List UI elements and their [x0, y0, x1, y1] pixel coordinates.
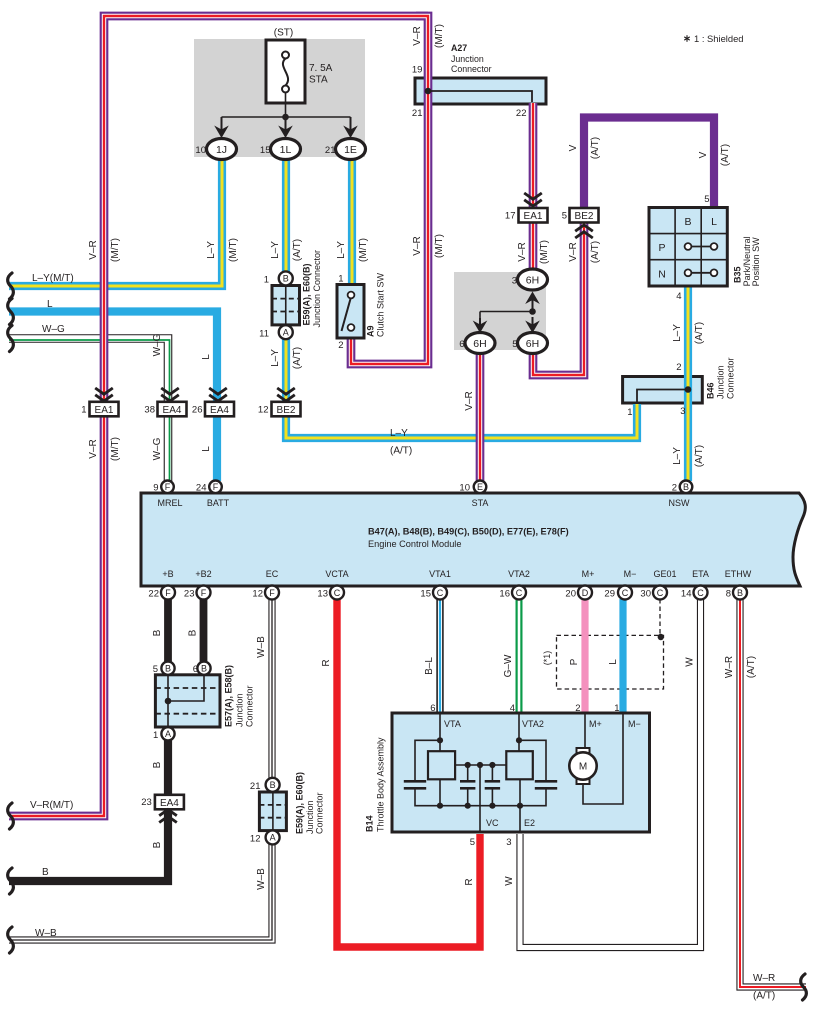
- wire V-R(M/T) A27 pin 19/21 to clutch start SW A9 pin 2: [351, 16, 428, 364]
- svg-text:B: B: [165, 664, 171, 674]
- svg-text:C: C: [334, 588, 341, 598]
- break W-R right edge: [801, 974, 807, 1000]
- junction dot B14: [489, 762, 495, 768]
- throttle body assembly B14: [392, 713, 650, 832]
- svg-text:12: 12: [250, 834, 261, 845]
- svg-text:W–B: W–B: [256, 636, 267, 658]
- wire P ECM M+ to throttle body M+: [581, 599, 588, 714]
- svg-text:M−: M−: [628, 719, 641, 729]
- svg-text:C: C: [657, 588, 664, 598]
- svg-text:2: 2: [676, 362, 681, 373]
- pin 12(A) of E59/E60 lower: [266, 830, 280, 844]
- svg-text:V–R: V–R: [412, 26, 423, 45]
- svg-text:2: 2: [672, 483, 677, 494]
- svg-text:22: 22: [516, 108, 527, 119]
- svg-text:R: R: [464, 878, 475, 885]
- connector 38 EA4: [158, 402, 187, 417]
- fuse block background (ST): [194, 39, 365, 157]
- svg-text:(A/T): (A/T): [694, 445, 705, 467]
- svg-text:EA4: EA4: [160, 798, 179, 809]
- svg-text:Connector: Connector: [726, 357, 736, 399]
- arrow into 1L: [278, 117, 293, 138]
- wire V-R from 6H pin 6 to ECM STA: [476, 347, 485, 481]
- ECM pin 2(B) NSW: [680, 481, 693, 494]
- svg-text:14: 14: [681, 589, 692, 600]
- junction connector A27: [415, 78, 546, 104]
- ECM pin 24(F) BATT: [209, 481, 222, 494]
- svg-text:L–Y: L–Y: [390, 428, 408, 439]
- wire W-G green stripe: [9, 340, 170, 481]
- break W-G left edge: [8, 326, 14, 352]
- svg-text:(M/T): (M/T): [228, 238, 239, 262]
- svg-text:V: V: [568, 144, 579, 151]
- pin 6(B) of E57/E58: [197, 662, 210, 675]
- svg-text:C: C: [622, 588, 629, 598]
- svg-text:3: 3: [680, 406, 685, 417]
- shield junction dot: [658, 634, 664, 640]
- wire B ECM +B2 to E57 pin 6: [200, 599, 208, 662]
- svg-text:BE2: BE2: [575, 211, 594, 222]
- svg-text:(M/T): (M/T): [110, 437, 121, 461]
- ECM pin 20(D): [578, 586, 592, 600]
- svg-text:F: F: [165, 588, 171, 598]
- svg-text:26: 26: [192, 405, 203, 416]
- ECM pin 15(C): [433, 586, 447, 600]
- svg-text:12: 12: [258, 405, 269, 416]
- svg-text:W: W: [684, 657, 695, 667]
- svg-text:Junction: Junction: [716, 365, 726, 399]
- svg-text:BE2: BE2: [277, 405, 296, 416]
- svg-text:A27: A27: [451, 43, 467, 53]
- svg-text:Connector: Connector: [245, 685, 255, 727]
- svg-text:E: E: [477, 482, 483, 492]
- svg-text:F: F: [165, 482, 171, 492]
- break B left edge: [8, 868, 14, 894]
- svg-text:N: N: [658, 268, 666, 280]
- svg-text:10: 10: [459, 483, 470, 494]
- svg-text:12: 12: [252, 589, 263, 600]
- 6H connector block background: [454, 272, 546, 350]
- svg-text:6H: 6H: [526, 275, 539, 287]
- connector 3 6H: [518, 269, 548, 290]
- svg-text:(A/T): (A/T): [694, 322, 705, 344]
- svg-text:B: B: [737, 588, 743, 598]
- wire W-B ECM EC to junction E59/E60 pin 21: [268, 599, 275, 779]
- svg-text:C: C: [697, 588, 704, 598]
- svg-text:L: L: [608, 659, 619, 665]
- svg-text:(M/T): (M/T): [434, 234, 445, 258]
- ECM pin 12(F): [265, 586, 279, 600]
- connector 12 BE2: [272, 402, 301, 417]
- svg-text:VCTA: VCTA: [325, 569, 348, 579]
- svg-text:(A/T): (A/T): [590, 241, 601, 263]
- connector arrows EA4: [209, 388, 227, 401]
- svg-text:VTA2: VTA2: [508, 569, 530, 579]
- svg-text:(A/T): (A/T): [720, 144, 731, 166]
- svg-text:20: 20: [565, 589, 576, 600]
- svg-text:21: 21: [325, 145, 336, 156]
- svg-text:1L: 1L: [280, 144, 292, 156]
- svg-text:(A/T): (A/T): [390, 446, 412, 457]
- svg-text:1: 1: [264, 275, 269, 286]
- svg-text:5: 5: [704, 194, 709, 205]
- svg-text:38: 38: [144, 405, 155, 416]
- ECM pin 8(B): [733, 586, 747, 600]
- svg-text:L–Y: L–Y: [270, 349, 281, 367]
- junction dot inside E57/E58: [165, 698, 172, 705]
- ECM pin 22(F): [161, 586, 175, 600]
- wire B ECM +B to E57 pin 5: [164, 599, 172, 662]
- svg-text:B: B: [42, 867, 49, 878]
- svg-text:EA4: EA4: [163, 405, 182, 416]
- pin 1(A) of E57/E58: [161, 727, 174, 740]
- svg-text:A: A: [270, 833, 276, 843]
- svg-text:29: 29: [604, 589, 615, 600]
- wire GE01 shield drain (dashed): [659, 599, 661, 635]
- svg-text:VC: VC: [486, 818, 499, 828]
- wire fuse distribution rail: [222, 116, 351, 118]
- svg-text:L–Y(M/T): L–Y(M/T): [32, 273, 74, 284]
- fuse 7.5A STA: [266, 40, 305, 103]
- svg-text:W–G: W–G: [152, 333, 163, 356]
- svg-text:L: L: [711, 216, 717, 228]
- svg-text:6H: 6H: [473, 338, 486, 350]
- svg-text:Clutch Start SW: Clutch Start SW: [376, 272, 386, 337]
- wire fuse output: [285, 93, 287, 117]
- ECM pin 16(C): [512, 586, 526, 600]
- svg-text:B: B: [283, 274, 289, 284]
- svg-text:16: 16: [499, 589, 510, 600]
- svg-text:W–B: W–B: [35, 928, 57, 939]
- svg-text:V–R: V–R: [568, 242, 579, 261]
- arrow into 6H pin 3: [525, 292, 540, 312]
- connector 5 6H: [518, 333, 548, 354]
- wire L-Y(M/T) from fuse 1J to left edge: [9, 150, 222, 286]
- connector arrows EA4 23: [159, 810, 177, 823]
- svg-text:B14: B14: [365, 815, 375, 832]
- svg-text:EA4: EA4: [210, 405, 229, 416]
- wire G-W ECM VTA2 to throttle body VTA2: [516, 599, 523, 714]
- junction dot B14: [489, 803, 495, 809]
- svg-text:A9: A9: [366, 325, 376, 337]
- svg-text:Junction: Junction: [451, 54, 484, 64]
- svg-text:+B: +B: [162, 569, 173, 579]
- arrow into 1E: [343, 117, 358, 138]
- B35 contact P row: [685, 243, 718, 250]
- svg-text:C: C: [437, 588, 444, 598]
- svg-text:15: 15: [260, 145, 271, 156]
- svg-text:F: F: [269, 588, 275, 598]
- svg-text:5: 5: [470, 837, 475, 848]
- A27 internal jumper: [428, 91, 532, 102]
- arrow into 6H pin 5: [525, 317, 540, 333]
- svg-text:2: 2: [338, 340, 343, 351]
- svg-text:4: 4: [510, 703, 515, 714]
- svg-text:Throttle Body Assembly: Throttle Body Assembly: [376, 737, 386, 832]
- svg-text:21: 21: [412, 108, 423, 119]
- capacitor C1: [404, 781, 426, 788]
- svg-text:22: 22: [148, 589, 159, 600]
- connector arrows EA1: [95, 388, 113, 401]
- ECM pin 14(C): [694, 586, 708, 600]
- wire L-Y(A/T) fuse 1L to junction E59/E60 pin 1: [282, 150, 290, 280]
- svg-text:21: 21: [250, 781, 261, 792]
- svg-text:E59(A), E60(B): E59(A), E60(B): [295, 772, 305, 834]
- wire W throttle body E2 to ECM ETA: [520, 599, 701, 948]
- svg-text:(M/T): (M/T): [539, 240, 550, 264]
- svg-text:E59(A), E60(B): E59(A), E60(B): [302, 263, 312, 325]
- svg-text:B: B: [152, 841, 163, 848]
- ECU B47/B48/B49/B50/E77/E78 Engine Control Module: [141, 493, 805, 586]
- connector 5 BE2: [570, 208, 599, 223]
- svg-text:Junction: Junction: [235, 693, 245, 727]
- svg-text:STA: STA: [309, 75, 328, 86]
- svg-text:MREL: MREL: [157, 498, 182, 508]
- wire V-R(M/T) A27 pin 22 through EA1 to 6H pin 3: [529, 103, 538, 272]
- pin 11(A) of E59/E60 upper: [279, 325, 293, 339]
- junction connector E59(A),E60(B) lower: [259, 792, 286, 831]
- junction dot inside A27: [425, 88, 432, 95]
- wire 6H internal branch: [480, 311, 533, 313]
- B35 contact N row: [685, 269, 718, 276]
- ECM pin 30(C): [653, 586, 667, 600]
- svg-text:Junction: Junction: [305, 800, 315, 834]
- svg-text:30: 30: [640, 589, 651, 600]
- ECM pin 9(F) MREL: [161, 481, 174, 494]
- svg-text:E57(A), E58(B): E57(A), E58(B): [224, 665, 234, 727]
- break L-Y(M/T) left edge: [8, 273, 14, 299]
- junction dot B14: [437, 737, 443, 743]
- svg-text:6: 6: [459, 339, 464, 350]
- svg-text:1: 1: [153, 730, 158, 741]
- svg-text:6: 6: [430, 703, 435, 714]
- throttle position sensor element 2: [506, 751, 533, 779]
- svg-text:L–Y: L–Y: [672, 324, 683, 342]
- svg-text:R: R: [321, 659, 332, 666]
- svg-text:Position SW: Position SW: [751, 237, 761, 287]
- pin 5(B) of E57/E58: [161, 662, 174, 675]
- svg-text:B–L: B–L: [424, 657, 435, 675]
- B46 internal jumper: [637, 390, 688, 403]
- svg-text:(A/T): (A/T): [292, 347, 303, 369]
- switch A9 clutch start SW: [337, 285, 364, 339]
- svg-text:W–G: W–G: [152, 437, 163, 460]
- arrow into 1J: [214, 117, 229, 138]
- svg-text:BATT: BATT: [207, 498, 230, 508]
- wire B-L ECM VTA1 to throttle body VTA: [436, 599, 443, 714]
- svg-text:B: B: [152, 629, 163, 636]
- svg-text:3: 3: [512, 276, 517, 287]
- wire L-Y(A/T) junction pin 11 to BE2: [282, 331, 290, 401]
- connector 1L: [271, 139, 301, 160]
- svg-text:B46: B46: [706, 382, 716, 399]
- svg-text:L: L: [201, 446, 212, 452]
- svg-text:L: L: [201, 354, 212, 360]
- svg-text:(A/T): (A/T): [753, 991, 775, 1002]
- capacitor C4: [535, 781, 557, 788]
- svg-text:B: B: [201, 664, 207, 674]
- connector arrows EA1: [524, 193, 542, 206]
- wire V-R(A/T) BE2 to 6H pin 5: [533, 222, 584, 375]
- svg-text:(A/T): (A/T): [746, 656, 757, 678]
- svg-text:L–Y: L–Y: [672, 447, 683, 465]
- svg-text:B: B: [270, 780, 276, 790]
- svg-text:F: F: [201, 588, 207, 598]
- connector 6 6H: [465, 333, 495, 354]
- svg-text:L: L: [47, 299, 53, 310]
- break V-R(M/T) left edge: [8, 803, 14, 829]
- wire L-Y(A/T) BE2 to B46 pin 1: [286, 404, 637, 438]
- switch B35 park/neutral position SW: [649, 208, 727, 287]
- svg-text:10: 10: [195, 145, 206, 156]
- svg-text:11: 11: [259, 329, 269, 340]
- shield box (*1) around M+/M- wires: [557, 635, 664, 689]
- note: *1 shielded: [684, 35, 690, 42]
- svg-text:1: 1: [627, 407, 632, 418]
- junction dot fuse rail: [282, 114, 289, 121]
- svg-text:17: 17: [505, 211, 516, 222]
- wire V-R(M/T) main: top run, left vertical, exit bottom-left: [9, 16, 428, 816]
- wire B E57 pin 1 through EA4 to left edge: [9, 740, 168, 881]
- junction dot inside B46: [685, 386, 692, 393]
- wire R ECM VCTA to throttle body VC: [337, 599, 480, 947]
- junction connector B46: [623, 377, 703, 404]
- svg-text:GE01: GE01: [653, 569, 676, 579]
- svg-text:EA1: EA1: [95, 405, 114, 416]
- svg-text:W–G: W–G: [42, 324, 65, 335]
- connector arrows BE2: [575, 225, 593, 238]
- svg-text:W–B: W–B: [256, 868, 267, 890]
- svg-text:(M/T): (M/T): [358, 238, 369, 262]
- ECM pin 10(E) STA: [474, 481, 487, 494]
- svg-text:W–R: W–R: [753, 973, 775, 984]
- svg-text:1J: 1J: [216, 144, 227, 156]
- svg-text:V–R: V–R: [88, 439, 99, 458]
- svg-text:W: W: [504, 876, 515, 886]
- svg-text:6: 6: [193, 664, 198, 675]
- arrow into 6H pin 6: [473, 318, 488, 333]
- svg-text:(M/T): (M/T): [110, 238, 121, 262]
- connector 23 EA4: [155, 795, 184, 810]
- svg-text:V–R: V–R: [464, 391, 475, 410]
- ECM pin 13(C): [330, 586, 344, 600]
- connector arrows BE2: [277, 388, 295, 401]
- junction dot B14: [465, 762, 471, 768]
- connector 17 EA1: [519, 208, 548, 223]
- svg-text:NSW: NSW: [669, 498, 691, 508]
- ECM pin 29(C): [618, 586, 632, 600]
- wire W-R(A/T) ECM ETHW to right edge: [740, 599, 806, 987]
- svg-text:VTA: VTA: [444, 719, 461, 729]
- svg-text:1E: 1E: [344, 144, 357, 156]
- svg-text:(A/T): (A/T): [292, 239, 303, 261]
- svg-text:VTA2: VTA2: [522, 719, 544, 729]
- wire L ECM M- to throttle body M-: [619, 599, 626, 714]
- pin 21(B) of E59/E60 lower: [266, 778, 280, 792]
- svg-text:5: 5: [512, 339, 517, 350]
- svg-text:B: B: [683, 482, 689, 492]
- connector 26 EA4: [205, 402, 234, 417]
- wire L-Y(A/T) B35 pin 4 through B46 to ECM NSW: [684, 287, 692, 481]
- svg-text:1 : Shielded: 1 : Shielded: [694, 33, 744, 44]
- svg-text:(ST): (ST): [274, 28, 293, 39]
- svg-text:Connector: Connector: [315, 792, 325, 834]
- svg-text:B: B: [684, 216, 691, 228]
- svg-text:9: 9: [153, 483, 158, 494]
- svg-text:(A/T): (A/T): [590, 137, 601, 159]
- capacitor C2: [460, 781, 475, 788]
- svg-text:Engine Control Module: Engine Control Module: [368, 539, 461, 549]
- svg-text:B: B: [152, 761, 163, 768]
- connector 1E: [336, 139, 366, 160]
- svg-text:M: M: [579, 762, 587, 773]
- svg-text:L–Y: L–Y: [206, 241, 217, 259]
- svg-text:A: A: [283, 328, 289, 338]
- svg-text:3: 3: [506, 837, 511, 848]
- svg-text:ETA: ETA: [692, 569, 709, 579]
- svg-text:B35: B35: [733, 266, 743, 283]
- svg-text:1: 1: [81, 405, 86, 416]
- svg-text:15: 15: [420, 589, 431, 600]
- wire L-Y(M/T) fuse 1E to clutch start SW A9 pin 1: [348, 150, 356, 286]
- svg-text:5: 5: [562, 211, 567, 222]
- svg-text:24: 24: [196, 483, 207, 494]
- svg-text:13: 13: [317, 589, 328, 600]
- svg-text:M+: M+: [589, 719, 602, 729]
- svg-text:F: F: [213, 482, 219, 492]
- svg-text:5: 5: [153, 664, 158, 675]
- svg-text:A: A: [165, 729, 171, 739]
- break W-B left edge: [8, 927, 14, 953]
- svg-text:VTA1: VTA1: [429, 569, 451, 579]
- svg-text:V–R: V–R: [412, 236, 423, 255]
- svg-text:L–Y: L–Y: [270, 241, 281, 259]
- svg-text:M−: M−: [624, 569, 637, 579]
- svg-text:G–W: G–W: [503, 654, 514, 677]
- svg-text:1: 1: [338, 274, 343, 285]
- B14 internal circuit: [415, 714, 623, 832]
- svg-text:B: B: [187, 629, 198, 636]
- svg-text:E2: E2: [524, 818, 535, 828]
- junction dot B14: [437, 803, 443, 809]
- svg-text:19: 19: [412, 65, 423, 76]
- svg-text:+B2: +B2: [195, 569, 211, 579]
- wire L battery feed to EA4/BATT: [9, 312, 217, 482]
- svg-text:W–R: W–R: [724, 656, 735, 678]
- svg-text:P: P: [569, 658, 580, 665]
- junction dot 6H block: [529, 308, 536, 315]
- svg-text:V: V: [698, 151, 709, 158]
- junction dot B14: [465, 803, 471, 809]
- svg-text:EC: EC: [266, 569, 279, 579]
- svg-text:Junction Connector: Junction Connector: [312, 250, 322, 328]
- svg-text:STA: STA: [472, 498, 489, 508]
- svg-text:ETHW: ETHW: [725, 569, 752, 579]
- svg-text:7. 5A: 7. 5A: [309, 63, 333, 74]
- wire W-G to EA4/MREL: [9, 339, 168, 482]
- wire V(A/T) BE2 up-over to B35 pin 5: [584, 118, 714, 210]
- svg-text:4: 4: [676, 291, 681, 302]
- pin 1(B) of E59/E60 upper: [279, 271, 293, 285]
- break L left edge: [8, 299, 14, 325]
- svg-text:(M/T): (M/T): [434, 24, 445, 48]
- svg-text:C: C: [516, 588, 523, 598]
- svg-text:V–R: V–R: [517, 242, 528, 261]
- svg-text:M+: M+: [582, 569, 595, 579]
- svg-text:EA1: EA1: [524, 211, 543, 222]
- svg-text:V–R(M/T): V–R(M/T): [30, 800, 73, 811]
- svg-text:D: D: [582, 588, 589, 598]
